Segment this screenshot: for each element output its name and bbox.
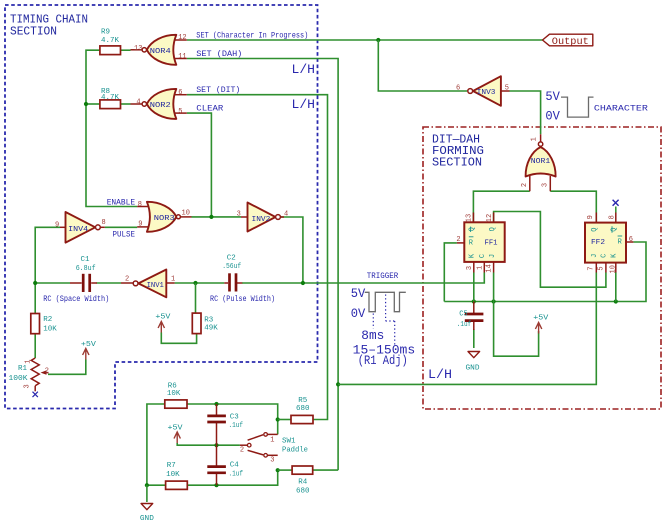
svg-text:8ms: 8ms [361, 329, 384, 343]
dotted measure line 8ms left [372, 314, 374, 329]
wire: NOR1 in3 to FF2 pin9 [550, 191, 596, 222]
svg-text:680: 680 [296, 488, 310, 496]
wire: GND stub [146, 485, 148, 502]
svg-text:4.7K: 4.7K [101, 94, 119, 102]
svg-text:C: C [479, 254, 487, 258]
svg-text:NOR1: NOR1 [531, 158, 551, 166]
svg-text:NOR4: NOR4 [150, 48, 172, 56]
svg-text:INV4: INV4 [68, 226, 89, 234]
junction SW1 pin3/R4 [276, 468, 280, 472]
svg-text:J: J [489, 254, 497, 258]
svg-text:Q: Q [610, 227, 618, 231]
wire: C1 to INV1 [97, 282, 122, 284]
junction +5V branch [492, 299, 496, 303]
svg-text:9: 9 [587, 215, 595, 219]
svg-text:3: 3 [542, 183, 550, 187]
svg-text:.1uf: .1uf [229, 422, 244, 430]
svg-text:L/H: L/H [292, 98, 316, 112]
svg-text:+5V: +5V [81, 341, 97, 349]
svg-text:C: C [601, 254, 609, 258]
svg-text:RC (Space Width): RC (Space Width) [43, 295, 109, 304]
svg-text:1: 1 [270, 436, 274, 444]
wire: R8 left [86, 103, 100, 105]
svg-text:INV3: INV3 [477, 89, 496, 97]
resistor R4 [292, 466, 313, 496]
svg-text:3: 3 [237, 211, 241, 219]
flip-flop FF2 [585, 207, 633, 274]
junction GND/R7 row [145, 483, 149, 487]
svg-text:Q: Q [591, 227, 599, 231]
svg-text:5V: 5V [545, 90, 560, 104]
svg-text:Paddle: Paddle [282, 447, 308, 455]
svg-text:10K: 10K [43, 326, 57, 334]
dotted measure line mid [386, 295, 395, 345]
svg-text:9: 9 [55, 222, 59, 230]
capacitor C5 .1uf [457, 302, 484, 331]
wire: FF1 pin2 reset to POR row [444, 243, 457, 302]
svg-text:+5V: +5V [533, 315, 549, 323]
svg-text:R5: R5 [298, 397, 308, 405]
svg-text:8: 8 [609, 215, 617, 219]
capacitor C1 6.8uf [70, 256, 97, 292]
svg-text:3: 3 [24, 384, 32, 388]
inverter INV2 [237, 203, 289, 232]
svg-text:R2: R2 [43, 316, 52, 324]
svg-text:INV2: INV2 [252, 216, 271, 224]
svg-text:49K: 49K [204, 324, 218, 332]
ground symbol near R7 [140, 504, 155, 524]
svg-text:3: 3 [466, 266, 474, 270]
wire: INV3 output to NOR1 [510, 91, 541, 134]
svg-text:8: 8 [138, 201, 142, 209]
svg-text:6: 6 [456, 84, 460, 92]
resistor R7 [166, 462, 188, 489]
svg-text:SET (DIT): SET (DIT) [196, 86, 240, 95]
svg-text:2: 2 [240, 447, 244, 455]
svg-text:10: 10 [609, 265, 617, 273]
junction C5 top [472, 299, 476, 303]
wire: R1 wiper to +5V [48, 360, 86, 375]
svg-text:SECTION: SECTION [432, 156, 482, 170]
svg-text:(R1 Adj): (R1 Adj) [358, 354, 408, 368]
wire: INV4 input from C1 node [35, 227, 60, 313]
wire: R3 bottom to +5V [161, 333, 196, 344]
junction C1 row / R2 [33, 281, 37, 285]
svg-text:TRIGGER: TRIGGER [367, 272, 399, 281]
+5V power symbol near R3 [155, 314, 171, 333]
wire: INV2 output down to C2 node [281, 217, 303, 283]
wire: R3 top stub [195, 283, 197, 313]
svg-text:J: J [591, 254, 599, 258]
wire: R2 bottom to R1 top [34, 334, 36, 358]
svg-text:2: 2 [456, 236, 460, 244]
svg-text:6: 6 [178, 89, 182, 97]
svg-text:C1: C1 [81, 256, 91, 264]
svg-text:R3: R3 [204, 316, 214, 324]
svg-text:R7: R7 [167, 462, 176, 470]
junction C3 top [214, 402, 218, 406]
wire: SET (DIT) net down to R5 [187, 95, 328, 420]
junction output wire [376, 38, 380, 42]
svg-text:2: 2 [521, 183, 529, 187]
resistor R6 [165, 382, 187, 408]
wire: +5V mid row to SW1 common [177, 443, 240, 445]
inverter INV3 (mirrored, output left) [456, 76, 510, 106]
wire: branch to R5 [278, 419, 291, 421]
wire: R9 right to NOR4 output [121, 49, 131, 51]
svg-text:3: 3 [270, 456, 274, 464]
svg-text:.56uf: .56uf [222, 263, 241, 271]
wire: R6 right to SW1 pin1 branch [187, 404, 278, 434]
svg-text:+5V: +5V [155, 314, 171, 322]
junction R3 top [193, 281, 197, 285]
svg-text:SECTION: SECTION [10, 25, 57, 39]
junction R5 branch [276, 417, 280, 421]
svg-text:1: 1 [171, 275, 175, 283]
svg-text:CLEAR: CLEAR [196, 105, 223, 114]
wire: PULSE net INV4 out to NOR3 [105, 226, 137, 228]
wire: SET (DAH) net to L/H junction [187, 59, 338, 471]
svg-text:14: 14 [486, 264, 494, 272]
+5V power symbol near SW1 [168, 425, 184, 444]
svg-text:1: 1 [24, 359, 32, 363]
junction C2/INV2/trigger [301, 281, 305, 285]
svg-text:13: 13 [466, 214, 474, 222]
wire: FF1 Q pin12 to FF2 clock pin5 [494, 212, 606, 288]
svg-text:Output: Output [552, 37, 589, 48]
svg-text:R1: R1 [18, 365, 28, 373]
junction rail/R8 [84, 102, 88, 106]
svg-text:INV1: INV1 [147, 282, 165, 290]
nor-gate NOR2 (mirrored, output left) [131, 89, 187, 119]
svg-text:13: 13 [134, 45, 142, 53]
wire: INV1 out to C2 [175, 282, 225, 284]
junction L/H node [336, 382, 340, 386]
svg-text:0V: 0V [351, 307, 366, 321]
svg-text:10: 10 [182, 210, 190, 218]
nor-gate NOR1 (rotated, output up) [521, 134, 556, 191]
wire: RC row C1 left [35, 282, 70, 284]
junction C4 bottom [214, 483, 218, 487]
capacitor C2 .56uf [222, 255, 242, 292]
no-connect X on R1 pin 3 [33, 392, 38, 397]
wire: CLEAR net down to NOR3 output node [187, 113, 212, 217]
wire: NOR3 output to INV2 input [192, 216, 242, 218]
wire: R6 row [147, 404, 166, 485]
dit-dah section border [423, 127, 661, 409]
wire: to R4 [278, 469, 292, 471]
wire: C2 to TRIGGER row into FF1 clock [242, 273, 484, 284]
wire: R8 right to NOR2 output [121, 103, 131, 105]
svg-text:NOR3: NOR3 [154, 215, 176, 223]
wire: SET (Character In Progress) net [187, 39, 543, 41]
svg-text:4: 4 [284, 211, 288, 219]
timing chain section border [5, 5, 318, 409]
svg-text:4.7K: 4.7K [101, 37, 119, 45]
svg-text:12: 12 [178, 34, 186, 42]
svg-text:5: 5 [505, 84, 509, 92]
svg-text:8: 8 [102, 219, 106, 227]
svg-text:PULSE: PULSE [113, 231, 136, 240]
svg-text:L/H: L/H [292, 63, 316, 77]
resistor R9 [100, 29, 121, 55]
wire: L/H row to FF2 pin7 [338, 273, 596, 385]
character waveform [561, 97, 594, 117]
svg-text:Q: Q [489, 227, 497, 231]
nor-gate NOR3 [137, 201, 191, 232]
svg-text:SW1: SW1 [282, 438, 296, 446]
svg-text:C5: C5 [459, 310, 467, 318]
inverter INV4 [55, 212, 106, 243]
wire: POR row [444, 242, 646, 302]
wire: R4 right up to L/H junction [313, 469, 338, 471]
svg-text:5: 5 [178, 108, 182, 116]
nor-gate NOR4 (mirrored, output left) [131, 34, 187, 65]
svg-text:FF2: FF2 [591, 239, 605, 247]
svg-text:GND: GND [140, 515, 155, 523]
svg-text:GND: GND [466, 365, 480, 373]
flip-flop FF1 [456, 213, 504, 273]
ground symbol near C5 [466, 352, 480, 373]
svg-text:10K: 10K [167, 390, 181, 398]
switch SW1 Paddle [240, 433, 308, 465]
svg-text:100K: 100K [9, 375, 29, 383]
inverter INV1 (mirrored, output left) [125, 270, 175, 298]
wire: FF1 pin3 down [473, 273, 475, 302]
svg-text:R9: R9 [101, 29, 110, 37]
svg-text:R6: R6 [168, 382, 178, 390]
capacitor C4 .1uf [207, 445, 243, 485]
trigger waveform [365, 292, 406, 311]
svg-text:5: 5 [597, 266, 605, 270]
svg-text:FF1: FF1 [485, 240, 498, 248]
svg-text:0V: 0V [545, 110, 560, 124]
wire: bottom row R7 to SW1 pin3 branch [187, 470, 277, 485]
wire: left rail from R9 down to ENABLE [86, 50, 137, 206]
svg-text:10K: 10K [166, 471, 180, 479]
svg-text:7: 7 [587, 266, 595, 270]
svg-text:.1uf: .1uf [457, 321, 472, 329]
svg-text:ENABLE: ENABLE [107, 198, 136, 207]
potentiometer R1 100K [9, 358, 50, 391]
resistor R5 [291, 397, 313, 424]
svg-text:680: 680 [296, 405, 310, 413]
svg-text:12: 12 [486, 214, 494, 222]
resistor R2 [31, 314, 58, 334]
wire: NOR1 in2 to FF1 pin13 [473, 191, 529, 222]
wire: FF1 pin14 down to +5V [494, 273, 539, 357]
svg-text:4: 4 [136, 98, 140, 106]
svg-text:2: 2 [125, 275, 129, 283]
junction CLEAR/NOR3 out [209, 215, 213, 219]
svg-text:SET (DAH): SET (DAH) [196, 50, 242, 59]
output hierarchical flag [543, 34, 593, 48]
svg-text:5V: 5V [351, 287, 366, 301]
wire: down to INV3 input [378, 40, 467, 91]
svg-text:6.8uf: 6.8uf [76, 265, 96, 273]
wire: C5 bottom to GND [473, 329, 475, 348]
svg-text:6: 6 [629, 236, 633, 244]
svg-text:9: 9 [138, 221, 142, 229]
svg-text:2: 2 [45, 367, 49, 375]
svg-text:NOR2: NOR2 [150, 102, 171, 110]
svg-text:R4: R4 [298, 479, 308, 487]
svg-text:C2: C2 [227, 255, 236, 263]
svg-text:+5V: +5V [168, 425, 184, 433]
svg-text:.1uf: .1uf [229, 471, 244, 479]
+5V power symbol in dit-dah section [533, 315, 549, 334]
svg-text:1: 1 [531, 137, 539, 141]
svg-text:C4: C4 [230, 462, 240, 470]
no-connect X on FF2 pin 8 [613, 200, 619, 206]
junction C3/C4 mid [214, 443, 218, 447]
svg-text:11: 11 [178, 53, 186, 61]
junction FF2 pin10 [614, 299, 618, 303]
svg-text:SET (Character In Progress): SET (Character In Progress) [196, 31, 308, 40]
svg-text:RC (Pulse Width): RC (Pulse Width) [210, 295, 275, 304]
resistor R3 [192, 313, 218, 334]
svg-text:C3: C3 [230, 413, 240, 421]
resistor R8 [100, 88, 121, 109]
+5V power symbol near R1 [81, 341, 97, 360]
svg-text:Q: Q [469, 227, 477, 231]
svg-text:1: 1 [477, 266, 485, 270]
svg-text:L/H: L/H [428, 368, 452, 382]
svg-text:CHARACTER: CHARACTER [594, 105, 648, 114]
wire: FF2 pin10 down [615, 273, 617, 302]
capacitor C3 .1uf [207, 404, 243, 445]
